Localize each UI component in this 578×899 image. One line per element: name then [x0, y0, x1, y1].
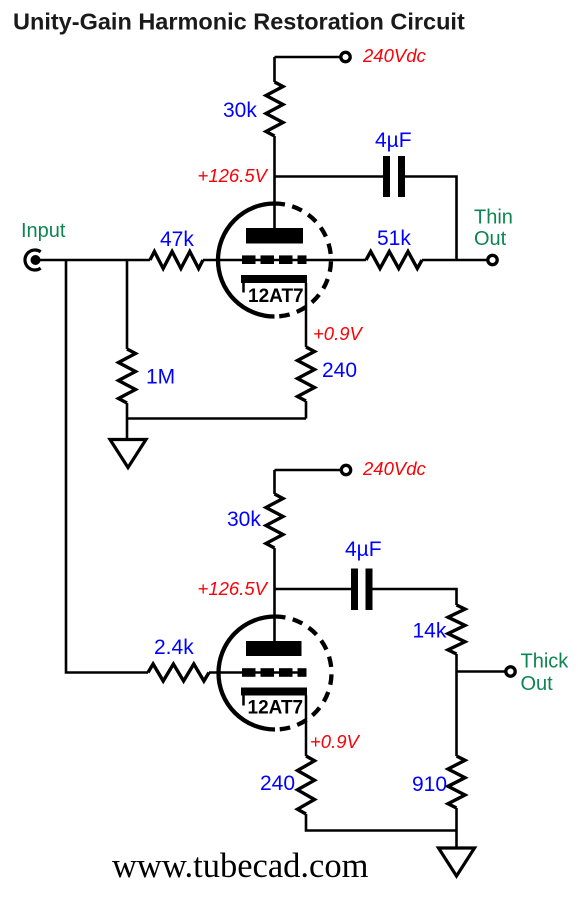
svg-text:+0.9V: +0.9V: [310, 731, 361, 752]
input terminal: [25, 250, 41, 270]
tube U1 cathode right lead to R240: [305, 283, 308, 347]
resistor R910: [448, 756, 465, 808]
svg-text:2.4k: 2.4k: [154, 636, 194, 659]
svg-text:+0.9V: +0.9V: [313, 323, 364, 344]
wire input drop to bottom stage: [66, 260, 148, 673]
wire 910 to ground: [455, 808, 458, 848]
wire drop to 1M: [126, 260, 129, 349]
tube U2 plate bar: [246, 641, 302, 656]
svg-text:Unity-Gain Harmonic Restoratio: Unity-Gain Harmonic Restoration Circuit: [13, 9, 465, 35]
svg-text:Thick: Thick: [521, 651, 570, 673]
wire bottom rail: [306, 814, 457, 831]
resistor R30k bottom: [266, 494, 283, 548]
resistor R240 bottom stage: [298, 756, 315, 814]
tube U1 envelope dashed arc: [275, 204, 332, 317]
svg-text:240: 240: [322, 359, 357, 382]
svg-text:12AT7: 12AT7: [248, 286, 304, 307]
wire plate node to cap C2: [275, 588, 352, 591]
tube U2 cathode right lead to R240: [305, 696, 308, 757]
wire 1M bottom to ground and 240: [127, 401, 306, 440]
wire cap C2 to 14k: [373, 589, 457, 605]
op tube U1 envelope solid arc: [218, 204, 275, 317]
svg-text:Thin: Thin: [474, 207, 513, 229]
svg-text:14k: 14k: [413, 620, 447, 643]
wire 51k to Thin Out: [422, 259, 487, 262]
svg-text:www.tubecad.com: www.tubecad.com: [112, 847, 369, 885]
svg-text:240: 240: [260, 772, 295, 795]
svg-text:30k: 30k: [227, 508, 261, 531]
svg-text:910: 910: [412, 773, 447, 796]
svg-text:240Vdc: 240Vdc: [362, 458, 426, 479]
resistor R14k: [448, 605, 465, 654]
svg-text:Out: Out: [521, 673, 554, 695]
terminal 240Vdc top: [341, 52, 350, 61]
resistor R2.4k: [148, 664, 209, 681]
wire to Thick Out: [457, 670, 505, 673]
svg-text:240Vdc: 240Vdc: [362, 45, 426, 66]
wire grid line U1: [203, 259, 366, 262]
svg-text:+126.5V: +126.5V: [198, 578, 269, 599]
tube U1 plate bar: [246, 228, 303, 244]
svg-text:4µF: 4µF: [375, 129, 412, 152]
tube U1 cathode left lead: [242, 283, 245, 293]
svg-text:12AT7: 12AT7: [248, 698, 304, 719]
capacitor C1 4uF plates: [383, 156, 390, 197]
tube U2 grid dashes: [242, 668, 256, 677]
svg-text:Input: Input: [21, 220, 66, 242]
wire input to 47k: [40, 259, 150, 262]
tube U2 cathode bar: [241, 688, 307, 696]
svg-text:+126.5V: +126.5V: [198, 165, 269, 186]
wire cap C1 to output corner: [405, 177, 457, 261]
wire 30k to plate U2: [273, 548, 276, 646]
terminal Thin Out: [488, 255, 497, 264]
ground G1: [110, 440, 146, 468]
resistor R47k: [150, 252, 203, 269]
wire B+ rail bottom stage: [275, 470, 341, 494]
wire 30k to plate: [273, 136, 276, 233]
resistor R240 top stage: [298, 347, 315, 401]
svg-text:30k: 30k: [223, 99, 257, 122]
wire B+ rail top stage: [275, 57, 341, 82]
wire plate node to cap C1: [275, 175, 384, 178]
svg-text:51k: 51k: [377, 227, 411, 250]
terminal Thick Out: [506, 667, 515, 676]
resistor R1M: [119, 349, 136, 403]
tube U2 envelope solid arc: [219, 617, 276, 730]
tube U2 envelope dashed arc: [275, 617, 332, 730]
ground G2: [439, 848, 475, 876]
svg-text:47k: 47k: [160, 228, 194, 251]
wire grid line U2: [209, 671, 305, 674]
capacitor C2 4uF plates: [351, 569, 358, 611]
wire 14k to 910: [455, 654, 458, 756]
tube U2 cathode left lead: [242, 696, 245, 706]
tube U1 grid dashes: [242, 255, 256, 264]
resistor R51k: [366, 252, 422, 269]
terminal 240Vdc bottom: [341, 465, 350, 474]
svg-text:Out: Out: [474, 228, 507, 250]
resistor R30k top: [266, 82, 283, 136]
tube U1 cathode bar: [241, 275, 307, 283]
svg-text:4µF: 4µF: [345, 538, 382, 561]
svg-text:1M: 1M: [146, 366, 175, 389]
